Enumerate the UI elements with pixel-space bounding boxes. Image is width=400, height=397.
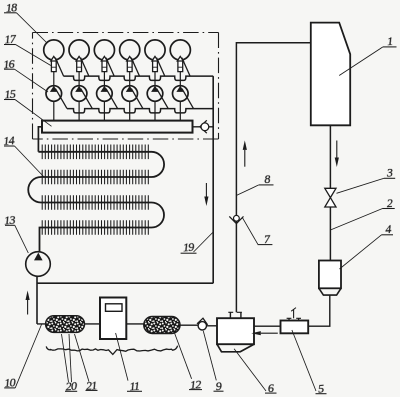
cylinder 18 unit 3 [94,40,114,60]
wire diagonal cylinder 6 to upper rail [182,58,190,77]
pump 5 [281,321,309,334]
wire valve3 to vessel4 [329,207,331,261]
check valve 9 [197,318,208,325]
injector 17 unit 3 [101,56,107,71]
wire bottom suction pipe [37,324,217,326]
injector 17 unit 1 [51,56,57,71]
flow arrow down (tank outlet) [336,141,338,158]
heater 11 [100,298,126,340]
wire diagonal pump 5 to lower rail [157,89,169,109]
pump 13 [26,252,51,277]
upper oil rail (pipe with hops) [64,76,214,80]
oil tank 1 [311,23,350,126]
injector 17 unit 5 [152,56,158,71]
pump element 16 unit 3 [97,86,113,102]
wire diagonal pump 6 to lower rail [182,89,194,109]
flow arrow up (bottom left riser) [27,300,29,315]
svg-text:19: 19 [182,239,194,254]
wire tank1 top branch [236,43,310,313]
vessel 6 [217,318,254,344]
wire diagonal pump 4 to lower rail [131,89,143,109]
engine block boundary (chain line) [33,32,219,34]
injector 17 unit 4 [127,56,133,71]
wire pump5 to vessel4 riser [308,295,330,326]
svg-text:1: 1 [387,34,393,48]
filter element 12 (right strainer) [144,317,180,334]
valve 3 [325,188,336,207]
radiator coil 14 tube [28,152,164,252]
wire diagonal pump 3 to lower rail [106,89,118,109]
wire gallery to radiator elbow [38,127,42,152]
pump element 16 unit 1 [46,86,62,102]
tank bottom line [37,282,213,284]
filter element 20/21 (left strainer) [46,316,85,333]
label 20 second leader [69,334,72,382]
radiator coil 14 fins [42,145,148,235]
injector 17 unit 2 [76,56,82,71]
injector 17 unit 6 [177,56,183,71]
wire diagonal pump 1 to lower rail [55,89,67,109]
wire vessel6 to pump5 [254,325,281,327]
cylinder 18 unit 4 [120,40,140,60]
wire diagonal cylinder 4 to upper rail [131,58,139,77]
wire diagonal cylinder 1 to upper rail [55,58,63,77]
flow arrow down (inside tank right) [205,183,207,197]
cylinder 18 unit 6 [170,40,190,60]
valve 7 [229,216,243,223]
brace under filters/heater [46,346,177,355]
wire pump outlet down-left side [36,276,38,324]
flow arrow left (pump5 to vessel6) [261,332,278,334]
vessel 4 [319,261,341,289]
pump element 16 unit 4 [122,86,138,102]
pump element 16 unit 2 [71,86,87,102]
wire diagonal cylinder 2 to upper rail [81,58,89,77]
wire diagonal cylinder 5 to upper rail [157,58,165,77]
pump element 16 unit 6 [173,86,189,102]
cylinder 18 unit 5 [145,40,165,60]
pump element 16 unit 5 [147,86,163,102]
cylinder 18 unit 1 [44,40,64,60]
cylinder 18 unit 2 [69,40,89,60]
lower oil rail (pipe with hops) [67,109,213,113]
wire diagonal cylinder 3 to upper rail [106,58,114,77]
oil gallery 15 [42,121,193,133]
wire diagonal pump 2 to lower rail [81,89,93,109]
wire tank1 to valve3 [329,125,331,188]
flow arrow up (return riser 8) [244,150,246,167]
tank right side line 19 [212,76,214,283]
check valve (gallery outlet) [193,126,214,128]
